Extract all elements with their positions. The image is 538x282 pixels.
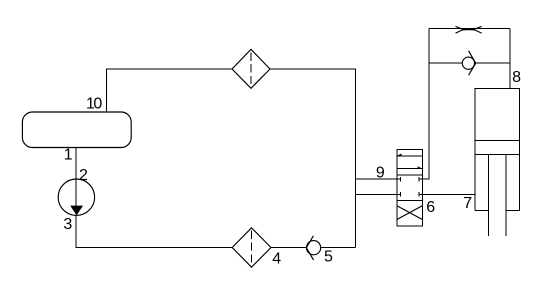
- svg-text:6: 6: [426, 199, 435, 216]
- svg-text:5: 5: [324, 248, 333, 265]
- svg-text:7: 7: [463, 195, 472, 212]
- svg-text:4: 4: [272, 250, 281, 267]
- svg-text:10: 10: [86, 96, 102, 113]
- svg-text:1: 1: [64, 147, 73, 164]
- svg-text:9: 9: [376, 164, 385, 181]
- svg-text:8: 8: [512, 69, 521, 86]
- svg-text:3: 3: [63, 216, 72, 233]
- svg-text:2: 2: [79, 167, 88, 184]
